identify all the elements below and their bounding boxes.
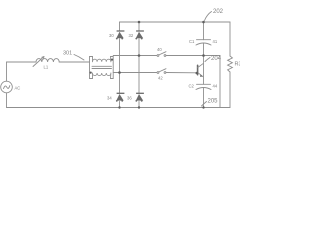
svg-text:44: 44 xyxy=(213,84,218,89)
wire inner return rail xyxy=(219,56,221,108)
svg-text:R3: R3 xyxy=(235,62,241,68)
wire inductor to transformer xyxy=(59,61,89,63)
switch S1 contacts xyxy=(157,55,159,57)
AC source V1 xyxy=(1,81,13,93)
junction node top bus / C1 xyxy=(202,21,205,24)
diode D3 xyxy=(117,92,125,94)
svg-text:41: 41 xyxy=(213,39,218,44)
svg-text:301: 301 xyxy=(63,51,72,57)
capacitor C1 xyxy=(197,39,211,41)
variable inductor arrow xyxy=(33,57,44,67)
leader for label 301 xyxy=(74,55,84,61)
svg-text:40: 40 xyxy=(157,47,162,52)
junction node base of Q1 xyxy=(196,72,199,75)
transformer core xyxy=(92,66,112,68)
wire bridge rail right xyxy=(138,22,140,108)
svg-text:C2: C2 xyxy=(189,84,195,89)
junction node bottom bus / C2 rail xyxy=(202,106,204,108)
junction node wire A / rail D2 xyxy=(138,54,141,57)
svg-text:30: 30 xyxy=(109,33,114,38)
diode D1 xyxy=(117,30,125,32)
inductor L1 xyxy=(36,59,59,62)
wire C1 branch top xyxy=(203,22,205,40)
wire bottom bus xyxy=(7,107,231,109)
junction node wire B / rail D1 xyxy=(118,71,121,74)
transistor Q1 emitter arrow xyxy=(200,74,203,77)
svg-text:42: 42 xyxy=(158,76,163,81)
wire left vertical below source xyxy=(6,93,8,108)
wire left vertical above source xyxy=(6,62,8,81)
transformer secondary winding xyxy=(93,73,111,79)
transformer phase dot secondary xyxy=(111,59,113,61)
wire secondary bottom (wire B) xyxy=(113,72,196,74)
wire right rail with R3 xyxy=(229,22,231,56)
diode D4 xyxy=(136,92,144,94)
wire top bus xyxy=(120,21,231,23)
wire bridge rail left xyxy=(119,22,121,108)
leader for label 205 xyxy=(202,102,207,107)
svg-text:34: 34 xyxy=(107,96,112,101)
junction node bottom bus / rail D3 xyxy=(118,106,120,108)
switch S2 blade xyxy=(159,69,166,72)
svg-text:32: 32 xyxy=(129,33,134,38)
junction node bottom bus / rail D4 xyxy=(138,106,140,108)
wire secondary top (wire A) xyxy=(113,55,220,57)
svg-text:L1: L1 xyxy=(44,65,49,70)
svg-text:36: 36 xyxy=(127,96,132,101)
svg-text:202: 202 xyxy=(213,9,224,15)
svg-text:C1: C1 xyxy=(189,39,195,44)
transformer phase dot primary xyxy=(90,72,92,74)
transistor Q1 xyxy=(197,65,199,74)
junction node top bus / rail D2 xyxy=(138,21,141,24)
diode D2 xyxy=(136,30,144,32)
AC sine inside source xyxy=(4,86,10,89)
leader for label 202 xyxy=(205,12,212,21)
resistor R3 xyxy=(228,56,233,72)
wire left horizontal to inductor xyxy=(7,61,37,63)
junction node wire A / C1 rail xyxy=(202,54,205,57)
switch S1 blade xyxy=(159,52,166,55)
transformer primary winding xyxy=(93,57,111,62)
transformer T1 left lead xyxy=(90,57,93,79)
svg-text:204: 204 xyxy=(211,56,222,62)
wire rail through transistor xyxy=(203,56,205,85)
capacitor C2 xyxy=(197,83,211,85)
switch S2 contacts xyxy=(157,72,159,74)
transformer T1 right lead xyxy=(111,57,114,79)
leader for label 204 xyxy=(205,58,210,62)
svg-text:205: 205 xyxy=(208,99,219,105)
svg-text:AC: AC xyxy=(15,86,21,91)
